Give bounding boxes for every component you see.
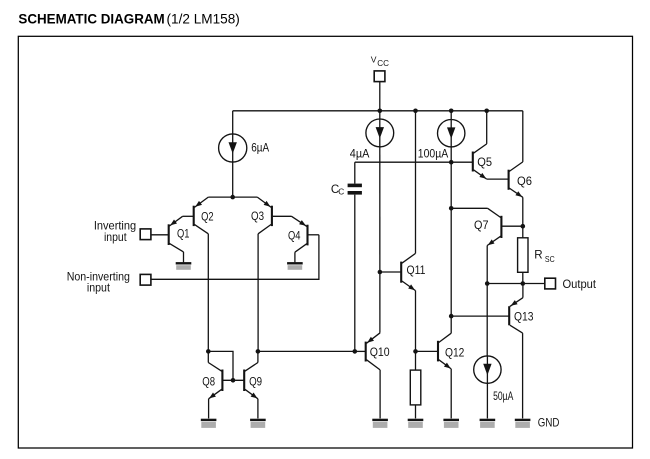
transistor Q6 [509,162,523,197]
label Q6 [517,175,532,188]
svg-text:Q7: Q7 [474,219,489,232]
wire Q3 collector to Q9 [257,234,259,352]
junction Q13 base node [449,314,454,319]
svg-text:6µA: 6µA [251,142,269,155]
wire Cc bottom to Q10 base line [354,195,356,352]
terminal non-inverting input [140,274,151,285]
label Q10 [370,346,390,359]
svg-text:Q9: Q9 [249,376,262,389]
svg-text:Q5: Q5 [477,156,492,169]
label Rsc [534,249,554,264]
junction rail-Q11 [413,109,418,114]
wire 4uA to Q10 emitter [379,147,381,333]
junction Q10 base-Cc [353,349,358,354]
label Cc [331,183,344,196]
wire VCC to rail [379,82,381,111]
wire R1 to ground [415,405,417,419]
wire 100uA down to Q12 collector [450,147,452,333]
wire output to Q13 emitter [522,284,524,298]
label Q2 [201,211,214,224]
capacitor Cc [348,184,362,195]
label GND [538,416,560,429]
svg-text:Q4: Q4 [288,230,301,243]
terminal Output [545,278,556,289]
wire output line [487,283,545,285]
svg-text:Output: Output [563,278,597,291]
svg-text:V: V [371,54,377,64]
wire rail to 4uA [379,111,381,119]
transistor Q11 [380,253,416,290]
svg-text:SC: SC [545,254,555,264]
junction 100uA-Q5 base-Cc [449,160,454,165]
title [18,11,239,26]
wire Q6 collector to rail corner [522,111,524,162]
ground Q13 [515,419,531,428]
label Q1 [177,227,190,240]
junction Q11 base node [378,270,383,275]
resistor Rsc [518,238,528,272]
svg-text:R: R [534,249,542,262]
ground Q8 [201,419,217,428]
ground Q4 [287,262,303,270]
wire inverting input to Q1 base [151,234,169,236]
svg-text:Q10: Q10 [370,346,390,359]
label Q8 [202,376,215,389]
ground Q10 [372,419,388,428]
svg-text:CC: CC [377,59,389,68]
label 6uA [251,142,269,155]
label Q13 [514,311,534,324]
label Q9 [249,376,262,389]
svg-text:Q13: Q13 [514,311,534,324]
transistor Q10 [355,333,380,370]
current source 6uA [219,134,247,162]
svg-text:4µA: 4µA [350,148,370,161]
resistor R1 [410,370,421,405]
label Non-inverting input [67,271,130,295]
ground Q12 [443,419,459,428]
transistor Q13 [451,298,523,333]
terminal inverting input [140,229,151,240]
svg-text:50µA: 50µA [493,390,513,403]
ground R1 [408,419,424,428]
wire Cc top lead [354,162,356,183]
wire output to 50uA [486,284,488,356]
transistor Q12 [416,333,452,369]
svg-text:100µA: 100µA [418,148,449,161]
svg-text:Q3: Q3 [251,210,264,223]
ground 50uA [480,419,496,428]
label Q7 [474,219,489,232]
junction 6uA-emitters [230,195,235,200]
wire 50uA to ground [486,383,488,418]
label Output [563,278,597,291]
wire rail to 100uA [450,111,452,120]
junction Q7 collector node [449,206,454,211]
svg-text:SCHEMATIC DIAGRAM(1/2 LM158): SCHEMATIC DIAGRAM(1/2 LM158) [18,11,239,26]
wire input pair emitter node [208,196,257,198]
label Inverting input [94,220,136,245]
ground Q9 [250,419,266,428]
svg-text:GND: GND [538,416,560,429]
junction rail-100uA [449,109,454,114]
svg-text:Q2: Q2 [201,211,214,224]
wire Q10 collector to ground [379,370,381,419]
svg-text:Q8: Q8 [202,376,215,389]
transistor Q1 [169,216,184,262]
label Q3 [251,210,264,223]
node VCC label [371,54,389,68]
junction Q12 base node [413,349,418,354]
svg-text:Q6: Q6 [517,175,532,188]
svg-text:C: C [338,187,344,197]
svg-text:Q1: Q1 [177,227,190,240]
svg-text:input: input [87,282,111,295]
junction Q8Q9 base [231,378,236,383]
wire Rsc to output [522,272,524,283]
current source 4uA [366,119,394,147]
terminal VCC [374,71,385,82]
wire Q6 emitter to Rsc [522,197,524,238]
wire Q5 emitter to Q6 base [487,178,509,180]
transistor Q2 [183,197,209,234]
junction rail-4uA [378,109,383,114]
wire non-inverting input to Q4 base [151,235,319,279]
current source 50uA [474,356,501,383]
label 50uA [493,390,513,403]
transistor Q7 [487,208,523,245]
label 100uA [418,148,449,161]
label Q5 [477,156,492,169]
transistor Q8 [208,351,222,418]
wire Q7 collector [451,207,487,209]
junction output-Rsc [521,281,526,286]
wire 6uA to input pair [232,162,234,197]
label Q12 [445,347,464,360]
svg-text:input: input [104,231,127,244]
junction rail-Q5 [484,109,489,114]
transistor Q4 [292,216,319,262]
junction output-Q7 [485,281,490,286]
label Q4 [288,230,301,243]
junction Q9 collector [256,349,261,354]
wire Q2 collector to Q8 [207,234,209,352]
wire rail to 6uA [232,111,234,134]
transistor Q5 [473,144,487,179]
label 4uA [350,148,370,161]
transistor Q9 [222,351,258,418]
junction Q7 base node [521,224,526,229]
wire Q11 emitter to R1 [415,291,417,371]
wire Q9 collector line to Q10 base [258,350,355,352]
junction Q8 collector [206,349,211,354]
transistor Q3 [257,197,291,234]
wire Q12 emitter to ground [450,369,452,419]
wire Q13 collector to ground [522,333,524,418]
ground Q1 [176,262,192,270]
wire Cc node to Q5 base [355,161,473,163]
wire Q7 emitter to output [486,246,488,284]
wire VCC rail [233,110,523,112]
current source 100uA [438,120,465,147]
wire Q11 collector to rail [415,111,417,254]
wire Q8 diode jog [208,351,233,380]
wire Q5 collector to rail [486,111,488,144]
label Q11 [407,264,426,277]
svg-text:Q12: Q12 [445,347,464,360]
svg-text:Q11: Q11 [407,264,426,277]
